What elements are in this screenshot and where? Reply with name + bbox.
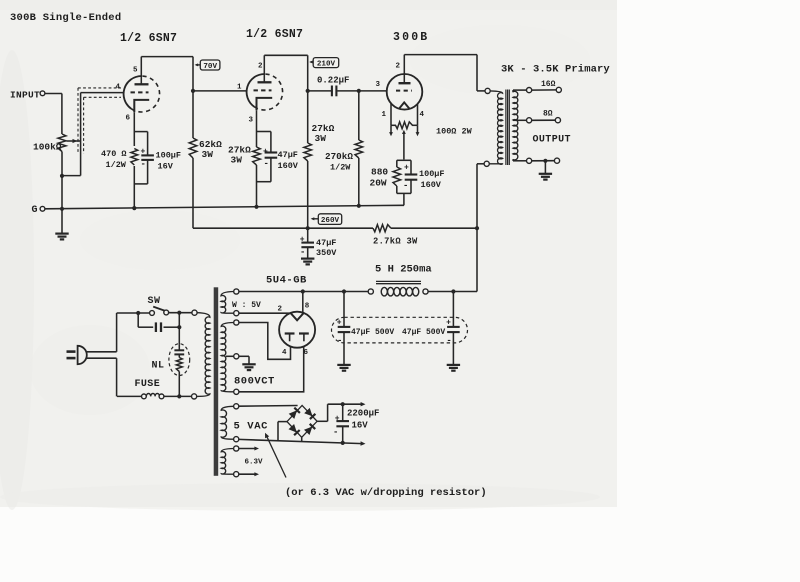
filament AC feed arrows	[390, 125, 392, 133]
5V winding	[234, 289, 239, 294]
bridge rectifier diamond	[287, 405, 317, 437]
svg-text:4: 4	[116, 84, 121, 92]
wire V2 plate rail down	[307, 55, 309, 143]
junction filter cap 1	[342, 289, 346, 293]
junction V1 plate to V2 grid	[191, 89, 195, 93]
wire bridge bottom stub	[301, 437, 303, 441]
wire shield return to pot bottom	[80, 141, 82, 176]
resistor 470 ohm 1/2W cathode	[131, 149, 138, 166]
svg-text:-: -	[333, 428, 338, 438]
svg-text:2.7kΩ 3W: 2.7kΩ 3W	[373, 237, 418, 247]
pot wiper arrow	[67, 140, 81, 142]
HV winding 800VCT	[234, 320, 239, 325]
svg-text:(or 6.3 VAC w/dropping resisto: (or 6.3 VAC w/dropping resistor)	[285, 487, 487, 499]
fuse wire	[117, 395, 142, 397]
wire cathode network to bus	[403, 193, 405, 205]
svg-text:-: -	[300, 248, 305, 258]
bridge diode top-left	[289, 410, 297, 419]
300B plate wire	[403, 55, 405, 84]
junction G bus at pot	[60, 207, 64, 211]
junction common ground	[543, 159, 547, 163]
OPT core lines	[505, 90, 507, 166]
V2 grid dashes	[254, 89, 272, 91]
5U4 plate right	[299, 332, 309, 334]
wire coupling cap to grid node	[337, 90, 359, 92]
svg-text:1: 1	[382, 111, 387, 119]
svg-text:-: -	[141, 160, 146, 170]
fuse	[142, 394, 147, 399]
junction grid leak	[357, 89, 361, 93]
junction cap minus	[341, 441, 345, 445]
svg-text:100µF: 100µF	[419, 169, 445, 179]
svg-text:5U4-GB: 5U4-GB	[266, 275, 307, 287]
junction NL bottom	[177, 394, 181, 398]
wire bridge minus	[278, 421, 287, 423]
svg-text:2200µF: 2200µF	[347, 409, 379, 419]
svg-text:4: 4	[420, 111, 425, 119]
choke 5H 250ma	[368, 289, 373, 294]
V1 cathode	[134, 100, 149, 112]
svg-text:800VCT: 800VCT	[234, 376, 275, 388]
300B grid dashes	[396, 90, 412, 92]
svg-text:OUTPUT: OUTPUT	[533, 135, 571, 146]
svg-text:210V: 210V	[317, 61, 336, 69]
svg-text:100Ω 2W: 100Ω 2W	[436, 127, 473, 137]
ground bus wire	[45, 205, 404, 209]
V2 plate wire to top rail	[263, 55, 265, 82]
potentiometer 100k volume	[58, 134, 66, 152]
wire V2 cathode down	[256, 110, 258, 147]
capacitor 0.22uF coupling	[331, 86, 333, 97]
wire 5U4 pin 8 to B+ line	[302, 292, 304, 313]
voltage label 210V	[311, 61, 314, 63]
junction 5U4 cathode	[301, 289, 305, 293]
DC minus arrow	[361, 441, 366, 445]
svg-text:1/2W: 1/2W	[330, 163, 351, 173]
cathode network bottom bar	[134, 183, 147, 185]
shield dashed lines around grid wire	[78, 87, 121, 89]
primary bottom terminal	[192, 394, 197, 399]
svg-text:-: -	[446, 336, 451, 346]
wire wiper to grid V1	[80, 93, 82, 141]
junction V2 plate / coupling cap	[306, 89, 310, 93]
svg-text:2: 2	[258, 63, 263, 71]
svg-text:47µF: 47µF	[316, 238, 336, 248]
wire 27k to B+ rail	[307, 161, 309, 228]
svg-text:6.3V: 6.3V	[245, 459, 264, 467]
OPT primary winding	[489, 91, 502, 164]
junction NL branch	[177, 325, 181, 329]
capacitor 47uF 160V cathode bypass V2	[270, 132, 272, 153]
svg-text:350V: 350V	[316, 248, 337, 258]
svg-text:16V: 16V	[352, 421, 369, 431]
svg-text:3W: 3W	[315, 133, 327, 144]
wire pin 2 to 5V winding	[239, 312, 290, 314]
svg-text:2: 2	[278, 306, 283, 314]
tube 300B envelope	[387, 74, 423, 110]
capacitor 47uF 500V filter 1	[343, 292, 345, 327]
snubber capacitor across switch	[137, 313, 139, 327]
junction at bus	[254, 205, 258, 209]
6.3V arrow top	[239, 448, 256, 450]
junction B+ node	[306, 226, 310, 230]
wire choke left to rectifier	[239, 291, 368, 293]
wire grid leak to bus	[358, 158, 360, 206]
6.3V arrow bottom	[239, 473, 256, 475]
V1 grid dashes	[131, 91, 149, 93]
hum pot wiper arrow	[403, 133, 405, 160]
bridge diode top-right	[304, 408, 312, 417]
capacitor 47uF 350V decoupling	[307, 228, 309, 242]
common terminals	[527, 158, 532, 163]
primary top terminal	[192, 310, 197, 315]
V1 plate bar	[135, 83, 149, 85]
voltage label 260V	[312, 218, 318, 220]
300B filament V	[399, 102, 410, 109]
V2 plate bar	[258, 81, 272, 83]
svg-text:160V: 160V	[421, 180, 442, 190]
wire fuse to transformer	[164, 395, 192, 397]
wire V2 cathode to bus	[256, 165, 258, 207]
resistor 880 ohm 20W cathode	[396, 160, 398, 167]
V2 cathode	[257, 98, 273, 110]
svg-text:47µF 500V: 47µF 500V	[351, 328, 394, 337]
junction pot bottom	[60, 174, 64, 178]
wire plate to coupling cap	[308, 90, 331, 92]
wire input to pot	[45, 93, 62, 95]
resistor 27k 3W plate load V2	[304, 143, 312, 161]
svg-text:20W: 20W	[370, 178, 387, 189]
junction at bus	[357, 204, 361, 208]
neon lamp NL branch wire	[178, 313, 180, 345]
wire cathode network to bus	[133, 166, 135, 208]
wire bus to input ground	[61, 209, 63, 234]
svg-text:1/2 6SN7: 1/2 6SN7	[246, 28, 303, 41]
resistor 270k 1/2W grid leak	[358, 91, 360, 140]
wire pot bottom to ground bus	[61, 152, 63, 209]
ground filter cap 2	[447, 364, 460, 366]
capacitor 2200uF 16V	[342, 404, 344, 421]
svg-text:SW: SW	[148, 296, 161, 307]
transformer core	[214, 287, 219, 476]
svg-text:880: 880	[371, 167, 388, 178]
svg-text:100kΩ: 100kΩ	[33, 142, 62, 153]
svg-text:2: 2	[396, 63, 401, 71]
300B cathode network top bar	[397, 159, 411, 161]
line cord	[87, 351, 117, 353]
svg-text:3W: 3W	[231, 155, 243, 166]
wire plate rail down V1	[192, 57, 194, 138]
V1 plate wire to top rail	[140, 57, 142, 85]
wire V1 cathode down	[133, 112, 135, 146]
wire V1 plate to V2 grid	[193, 90, 247, 92]
8 ohm tap wire	[513, 119, 527, 121]
300B filament legs	[390, 104, 392, 126]
junction snubber left	[136, 311, 140, 315]
svg-text:G: G	[32, 205, 38, 216]
svg-text:5: 5	[133, 67, 138, 75]
V2 cathode network top bar	[257, 131, 271, 133]
svg-text:8Ω: 8Ω	[543, 110, 553, 119]
V2 cathode network bottom bar	[257, 181, 271, 183]
5VAC winding	[234, 404, 239, 409]
svg-text:5 H 250ma: 5 H 250ma	[375, 264, 432, 276]
svg-text:5 VAC: 5 VAC	[234, 421, 269, 433]
tube 5U4-GB envelope	[279, 312, 315, 348]
svg-text:3: 3	[249, 117, 254, 125]
svg-text:470 Ω: 470 Ω	[101, 149, 127, 159]
5U4 plate left	[285, 332, 295, 334]
300B cathode network bottom bar	[397, 192, 411, 194]
wire 5VAC bottom / DC minus line	[239, 439, 363, 443]
svg-text:-: -	[264, 159, 269, 169]
DC plus arrow	[361, 402, 366, 406]
resistor 27k 3W cathode V2	[253, 147, 261, 165]
resistor 62k 3W plate load V1	[189, 138, 197, 158]
svg-text:70V: 70V	[203, 63, 217, 71]
svg-text:300B Single-Ended: 300B Single-Ended	[10, 12, 121, 24]
B+ rail wire right	[391, 227, 477, 229]
svg-text:1/2 6SN7: 1/2 6SN7	[120, 32, 177, 45]
wire pin 6 to HV winding bottom	[239, 346, 304, 392]
wire to 300B grid	[359, 90, 387, 92]
annotation arrow to 5VAC	[266, 435, 286, 477]
svg-text:0.22µF: 0.22µF	[317, 76, 349, 86]
G terminal	[40, 206, 45, 211]
capacitor 47uF 500V filter 2	[452, 292, 454, 327]
ground filter cap 1	[337, 364, 350, 366]
svg-text:4: 4	[282, 349, 287, 357]
svg-text:16V: 16V	[158, 162, 174, 172]
OPT secondary winding	[513, 91, 518, 160]
16 ohm tap wire	[512, 90, 514, 92]
svg-text:3: 3	[376, 81, 381, 89]
wire plate line to OPT	[476, 55, 478, 91]
wire 5VAC top to bridge	[239, 405, 298, 408]
B+ choke node wire	[428, 291, 477, 293]
HV center tap wire	[226, 355, 234, 357]
svg-text:3W: 3W	[202, 149, 214, 160]
OPT primary bottom terminal	[484, 161, 489, 166]
ground input	[55, 233, 68, 235]
wire 62k to B+ rail	[192, 158, 194, 228]
wire switch to transformer	[169, 312, 192, 314]
svg-text:6: 6	[126, 115, 131, 123]
primary winding	[197, 313, 210, 397]
junction B+ rail right	[475, 226, 479, 230]
triode V1 1/2 6SN7 envelope	[124, 76, 142, 109]
wire OPT bottom to B+ vertical	[477, 163, 484, 165]
svg-text:160V: 160V	[278, 161, 299, 171]
svg-text:270kΩ: 270kΩ	[325, 151, 353, 162]
bridge diode bottom-right	[304, 427, 312, 436]
300B plate bar	[399, 82, 411, 84]
16 ohm terminals	[527, 88, 532, 93]
switch SW	[150, 311, 155, 316]
B+ rail wire	[193, 227, 373, 229]
voltage label 70V	[196, 64, 200, 66]
svg-text:100µF: 100µF	[156, 151, 182, 161]
5U4 filament V	[291, 313, 304, 320]
ground 47uF 350V	[301, 258, 314, 260]
ground OPT secondary	[539, 173, 552, 175]
neon lamp NL	[169, 344, 190, 376]
AC plug	[67, 350, 76, 353]
6.3V winding	[234, 446, 239, 451]
common tap wire	[512, 159, 514, 161]
svg-text:1/2W: 1/2W	[106, 160, 127, 170]
svg-text:+: +	[404, 164, 409, 173]
svg-text:47µF: 47µF	[278, 150, 298, 160]
8 ohm terminals	[527, 118, 532, 123]
wire center tap to ground	[239, 355, 249, 357]
svg-text:8: 8	[305, 303, 310, 311]
wire to switch	[117, 312, 150, 314]
junction snubber right	[177, 311, 181, 315]
svg-text:-: -	[403, 181, 408, 191]
svg-text:47µF 500V: 47µF 500V	[402, 328, 445, 337]
capacitor 100uF 160V cathode bypass 300B	[410, 160, 412, 174]
wire common to ground	[544, 161, 546, 174]
bridge diode bottom-left	[289, 424, 297, 433]
svg-text:300B: 300B	[393, 31, 429, 44]
OPT primary top terminal	[485, 88, 490, 93]
capacitor 100uF 16V cathode bypass	[147, 132, 149, 156]
triode V2 1/2 6SN7 envelope	[247, 74, 265, 107]
hum pot 100 ohm 2W	[391, 124, 396, 126]
wire pin 4 to HV winding top	[239, 323, 291, 360]
svg-text:W : 5V: W : 5V	[232, 301, 261, 310]
resistor 2.7k 3W dropper	[373, 225, 391, 232]
svg-text:NL: NL	[152, 361, 165, 372]
junction cap plus	[341, 402, 345, 406]
svg-text:3K - 3.5K Primary: 3K - 3.5K Primary	[501, 64, 610, 76]
svg-text:FUSE: FUSE	[135, 379, 161, 390]
wire bridge plus	[317, 420, 328, 422]
svg-text:16Ω: 16Ω	[541, 80, 556, 89]
dashed outline filter caps	[332, 317, 468, 343]
ground center tap	[242, 363, 255, 365]
svg-text:INPUT: INPUT	[10, 90, 40, 101]
junction at bus	[132, 206, 136, 210]
junction cathode network top	[134, 131, 147, 133]
junction filter cap 2	[451, 289, 455, 293]
svg-text:260V: 260V	[321, 217, 340, 225]
svg-text:1: 1	[237, 84, 242, 92]
INPUT terminal	[40, 91, 45, 96]
